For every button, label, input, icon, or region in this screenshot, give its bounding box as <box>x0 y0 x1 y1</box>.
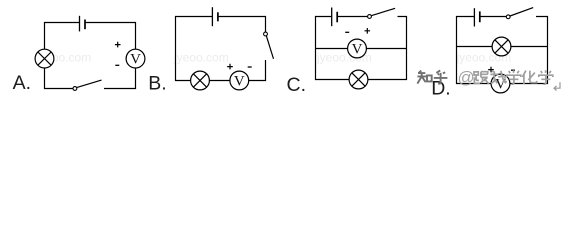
wire D left side (battery to bottom-left corner) <box>457 17 492 84</box>
wire C middle-right (voltmeter to right side) <box>366 48 406 50</box>
lamp L1 <box>35 49 54 68</box>
wire B bottom-middle (lamp to voltmeter) <box>209 80 230 82</box>
battery GB3 long plate <box>331 8 333 27</box>
wire A top-left (lamp top to battery) <box>45 23 80 50</box>
svg-text:jyeoo.com: jyeoo.com <box>173 51 229 65</box>
battery GB2 long plate <box>211 7 213 26</box>
wire C top-right (contact to top-right corner) <box>368 17 407 80</box>
wire D middle-left <box>457 46 493 48</box>
option label A <box>13 72 31 94</box>
voltmeter V2 <box>230 71 249 90</box>
label + (voltmeter A) <box>115 42 121 48</box>
svg-text:V: V <box>130 51 141 67</box>
wire A top-right (battery to voltmeter top) <box>85 23 136 50</box>
svg-text:V: V <box>352 41 363 57</box>
switch S1 pivot <box>73 87 77 91</box>
label - (voltmeter B) <box>248 66 252 68</box>
label - (voltmeter A) <box>115 64 119 66</box>
svg-text:C.: C. <box>287 74 307 96</box>
lamp L4 <box>492 37 511 56</box>
watermark zhihu logo text 知 <box>417 71 431 84</box>
wire D top-right (contact to top-right corner) <box>510 17 548 84</box>
switch S1 blade <box>77 80 102 88</box>
svg-text:B.: B. <box>148 72 166 94</box>
lamp L3 <box>349 70 368 89</box>
svg-text:A.: A. <box>13 72 31 94</box>
watermark handle char 学 (second) <box>539 70 553 84</box>
switch S3 pivot <box>368 15 372 19</box>
switch S2 pivot <box>264 32 268 36</box>
label - (voltmeter C) <box>345 31 349 33</box>
wire C left side (battery to bottom-left corner) <box>316 17 350 80</box>
svg-text:V: V <box>234 73 245 89</box>
watermark handle char 跟 <box>474 72 489 84</box>
line-break pilcrow mark <box>554 82 560 90</box>
voltmeter V4 <box>491 74 510 93</box>
option label D <box>431 78 451 100</box>
wire B left side (top wire to bottom-left corner) <box>176 17 213 81</box>
watermark handle char 我 <box>490 71 506 84</box>
switch S4 blade <box>510 8 533 16</box>
switch S4 pivot <box>506 15 510 19</box>
watermark handle char 化 <box>522 71 536 85</box>
battery GB1 long plate <box>79 16 81 32</box>
label + (voltmeter B) <box>227 64 233 70</box>
wire D top-middle (battery to switch pivot) <box>480 16 506 18</box>
voltmeter V3 <box>348 39 367 58</box>
battery GB4 long plate <box>473 8 475 26</box>
wire A right-bottom (voltmeter to switch contact) <box>104 68 136 89</box>
watermark zhihu logo text 乎 <box>434 70 448 84</box>
option label B <box>148 72 166 94</box>
watermark handle char 学 <box>507 70 521 84</box>
label + (voltmeter C) <box>365 28 371 34</box>
label + (voltmeter D) <box>488 67 494 73</box>
lamp L2 <box>191 71 210 90</box>
node C middle-left <box>316 48 348 50</box>
battery GB1 short plate <box>84 20 86 30</box>
wire A bottom-left (switch to lamp bottom) <box>45 68 74 89</box>
wire B top-right (battery to switch pivot) <box>218 17 266 33</box>
svg-text:V: V <box>495 76 506 92</box>
svg-text:@: @ <box>458 68 475 87</box>
wire B right-lower (contact to bottom-right corner) <box>249 60 266 81</box>
battery GB3 short plate <box>336 12 338 22</box>
switch S2 blade <box>266 36 273 59</box>
battery GB4 short plate <box>479 11 481 22</box>
label - (voltmeter D) <box>511 69 515 71</box>
wire C top-middle (battery to switch pivot) <box>337 16 368 18</box>
voltmeter V1 <box>126 49 145 68</box>
wire D middle-right (lamp to right side) <box>511 46 548 48</box>
option label C <box>287 74 307 96</box>
battery GB2 short plate <box>217 12 219 21</box>
switch S3 blade <box>371 8 395 15</box>
